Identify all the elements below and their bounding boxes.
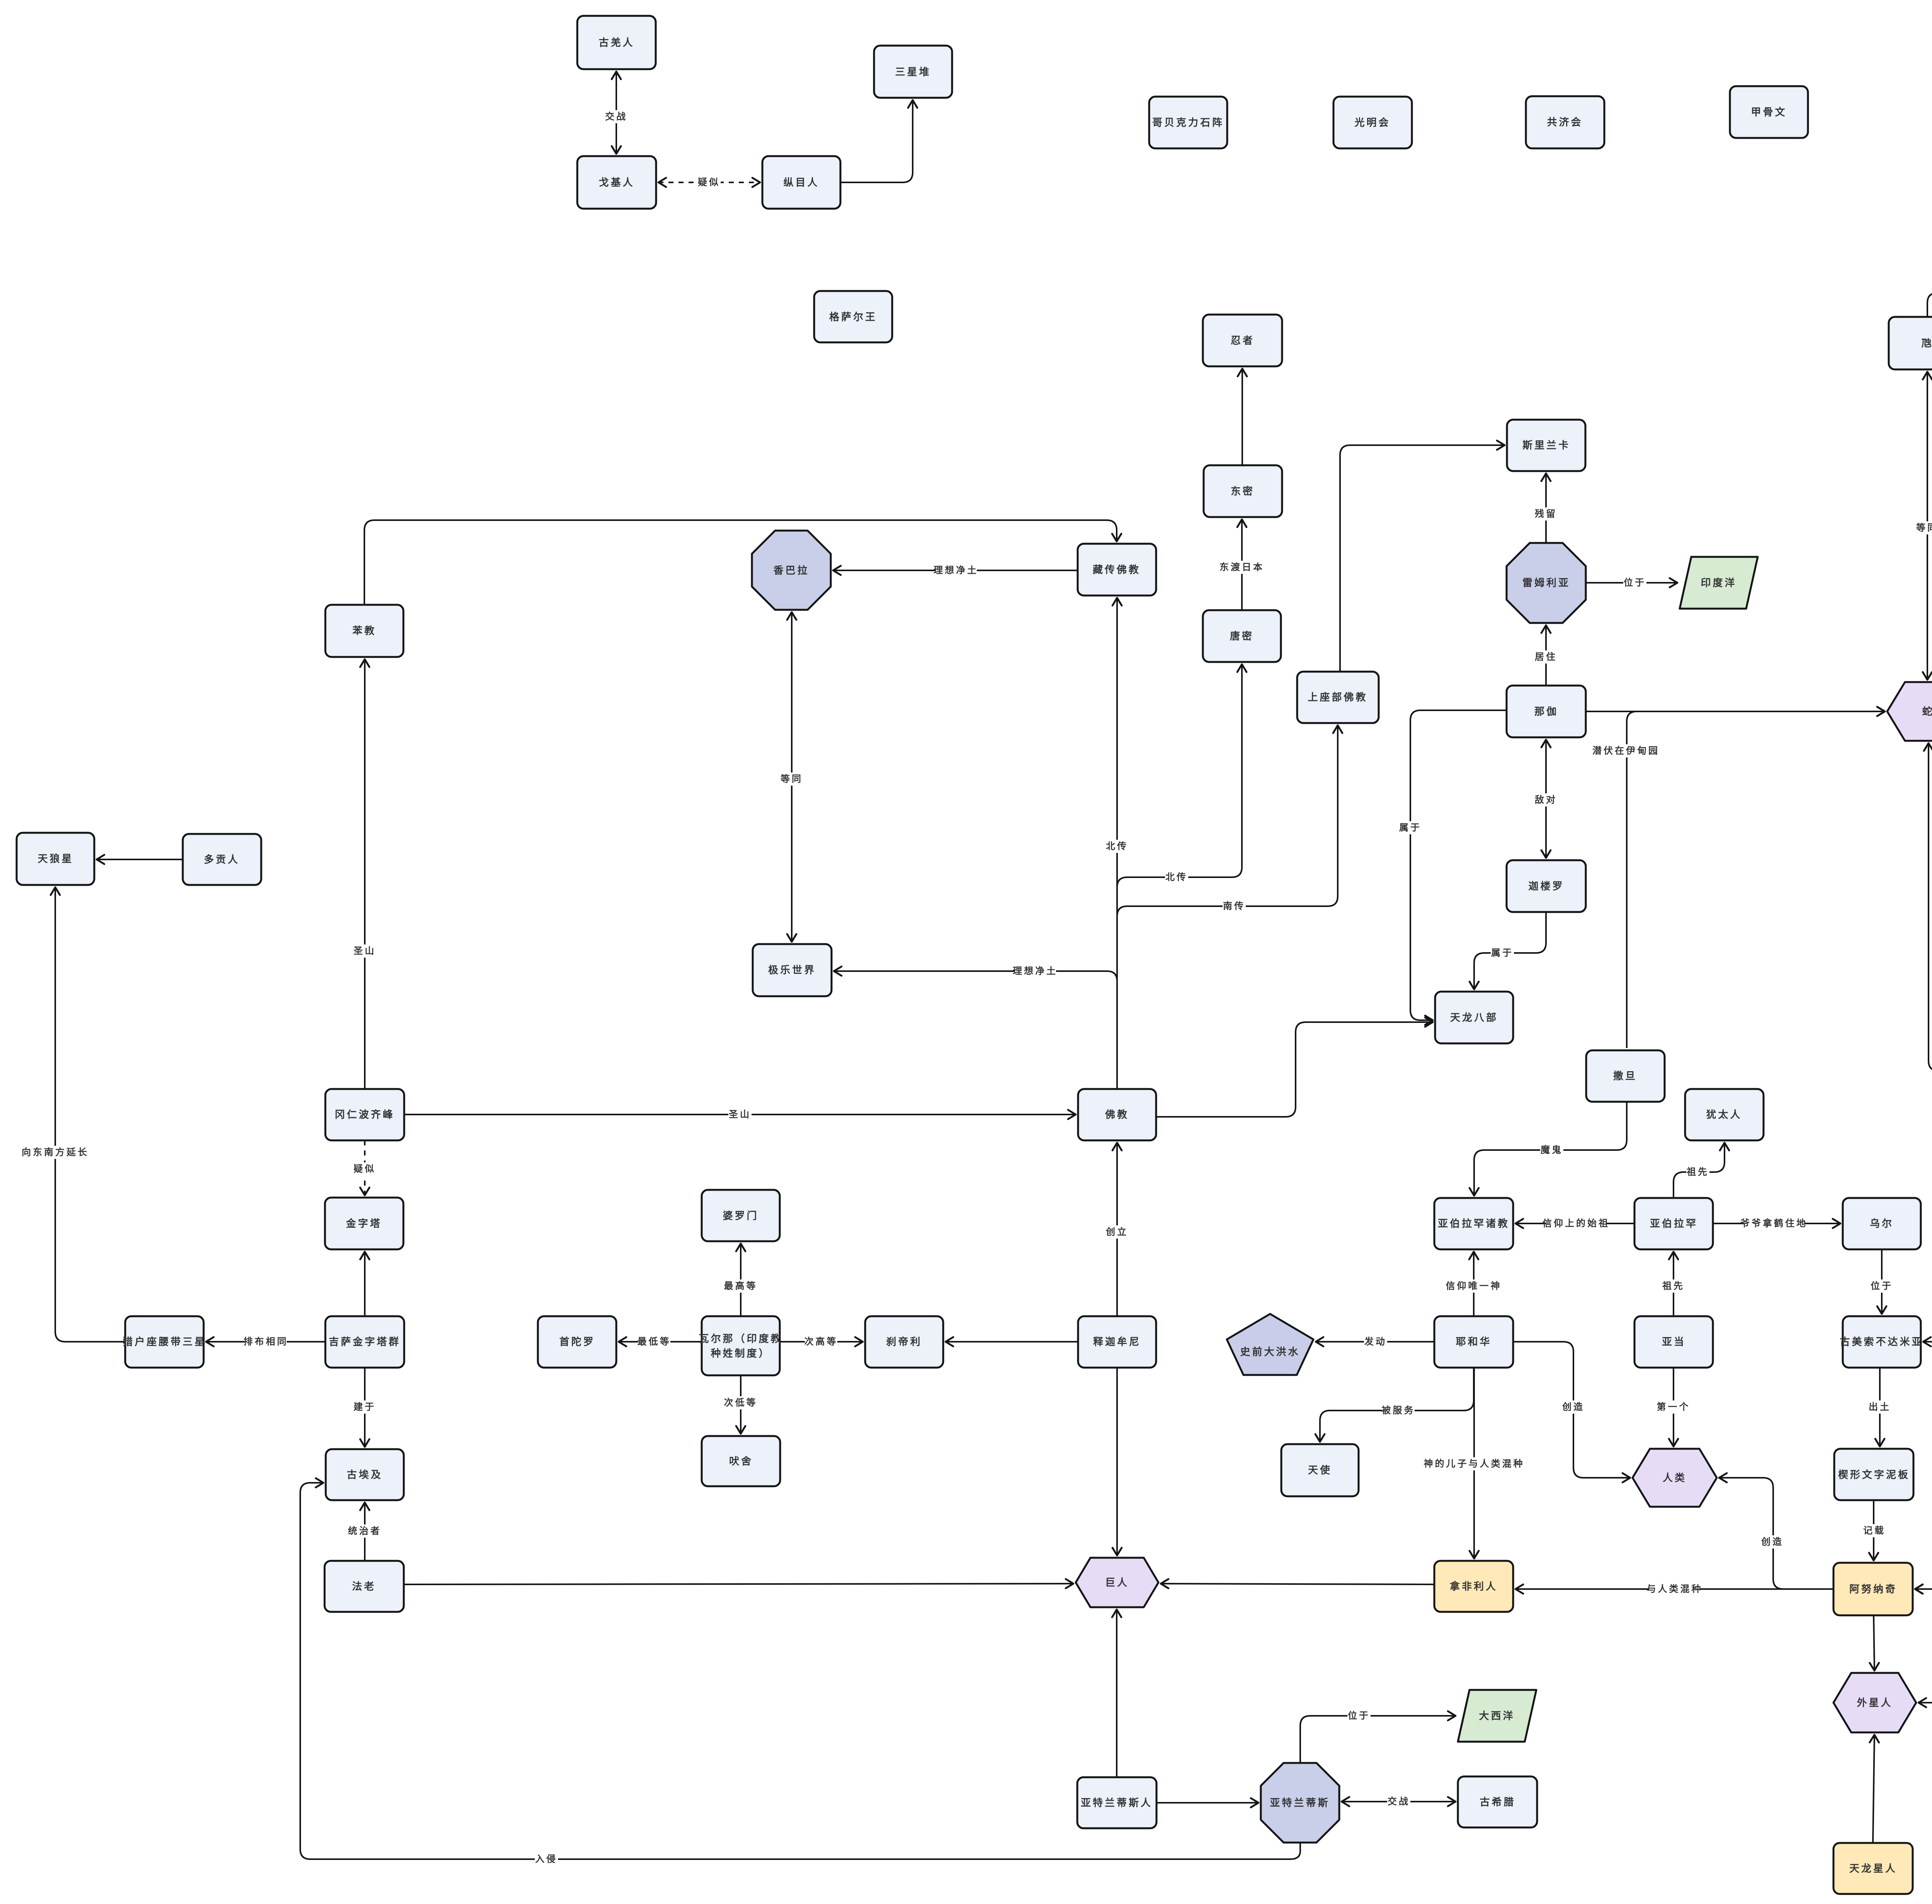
node 古美索不达米亚 (1840, 1316, 1923, 1368)
node 香巴拉 (752, 531, 831, 610)
node 格萨尔王 (814, 291, 892, 342)
svg-text:亚伯拉罕: 亚伯拉罕 (1650, 1218, 1698, 1229)
wire 古美索不达米亚-楔形文字泥板 出土 (1868, 1368, 1891, 1446)
wire 阿努纳奇-人类 创造 (1719, 1478, 1833, 1589)
wire 冈仁波齐峰-佛教 圣山 (404, 1108, 1076, 1121)
svg-text:多贡人: 多贡人 (204, 854, 240, 865)
svg-text:信仰唯一神: 信仰唯一神 (1446, 1281, 1502, 1291)
wire 法老-古埃及 统治者 (348, 1502, 382, 1561)
svg-text:向东南方延长: 向东南方延长 (22, 1147, 89, 1158)
node 释迦牟尼 (1078, 1316, 1156, 1368)
node 天龙八部 (1435, 992, 1513, 1043)
svg-text:东密: 东密 (1231, 485, 1255, 497)
svg-text:三星堆: 三星堆 (895, 66, 931, 78)
wire 释迦牟尼-刹帝利 (946, 1341, 1078, 1342)
node 外星人 (1833, 1673, 1916, 1732)
wire 佛教-藏传佛教 北传 (1105, 598, 1129, 1089)
wire 亚特兰蒂斯人-亚特兰蒂斯 (1156, 1802, 1259, 1804)
wire 瓦尔那-首陀罗 最低等 (619, 1335, 702, 1348)
svg-text:统治者: 统治者 (348, 1526, 382, 1536)
wire 唐密-东密 东渡日本 (1219, 519, 1264, 610)
svg-text:魔鬼: 魔鬼 (1541, 1145, 1563, 1155)
svg-text:法老: 法老 (352, 1581, 376, 1592)
wire 那伽-天龙八部 属于 (1399, 710, 1507, 1020)
wire 宁松-阿努纳奇 属于 (1915, 1368, 1932, 1596)
svg-text:阿努纳奇: 阿努纳奇 (1849, 1583, 1897, 1595)
node 吠舍 (702, 1436, 780, 1486)
wire 阿努纳奇-外星人 (1874, 1615, 1874, 1671)
node 唐密 (1203, 610, 1281, 662)
node 巨人 (1076, 1558, 1158, 1607)
svg-text:交战: 交战 (1388, 1796, 1410, 1807)
svg-text:神的儿子与人类混种: 神的儿子与人类混种 (1424, 1458, 1525, 1469)
wire 那伽-蛇 (1586, 711, 1885, 712)
node 东密 (1204, 465, 1282, 517)
wire 法老-巨人 (404, 1584, 1073, 1584)
svg-text:哥贝克力石阵: 哥贝克力石阵 (1152, 117, 1224, 128)
wire 亚当-亚伯拉罕 祖先 (1662, 1252, 1685, 1316)
svg-text:入侵: 入侵 (535, 1854, 558, 1865)
wire 吉萨金字塔群-猎户座腰带三星 排布相同 (206, 1335, 325, 1348)
svg-text:次低等: 次低等 (724, 1397, 758, 1408)
svg-text:大西洋: 大西洋 (1479, 1710, 1515, 1722)
node 雷姆利亚 (1507, 543, 1586, 623)
wire 亚当-人类 第一个 (1657, 1368, 1690, 1446)
node 古羌人 (577, 16, 656, 69)
svg-text:最高等: 最高等 (724, 1281, 758, 1291)
wire 亚伯拉罕-乌尔 爷爷拿鹤住地 (1713, 1217, 1840, 1230)
wire 天龙星人-外星人 (1873, 1735, 1874, 1843)
svg-text:出土: 出土 (1869, 1402, 1891, 1412)
svg-text:佛教: 佛教 (1105, 1109, 1129, 1120)
svg-text:属于: 属于 (1399, 823, 1422, 833)
node 拿非利人 (1434, 1561, 1513, 1612)
svg-text:上座部佛教: 上座部佛教 (1308, 691, 1367, 703)
wire igigi-阿努纳奇 服务 (1915, 1589, 1932, 1643)
svg-text:被服务: 被服务 (1382, 1405, 1415, 1416)
svg-text:建于: 建于 (354, 1402, 376, 1412)
wire 蜥蜴人-外星人 一种可能 (1918, 1071, 1932, 1703)
node 史前大洪水 (1227, 1314, 1313, 1375)
svg-text:北传: 北传 (1165, 872, 1188, 883)
wire 戈基人-纵目人 疑似 (658, 176, 760, 189)
svg-text:东渡日本: 东渡日本 (1219, 562, 1264, 573)
svg-text:天龙星人: 天龙星人 (1849, 1863, 1897, 1874)
svg-text:唐密: 唐密 (1230, 630, 1254, 642)
svg-text:第一个: 第一个 (1657, 1402, 1690, 1412)
svg-text:外星人: 外星人 (1857, 1697, 1893, 1708)
svg-text:耶和华: 耶和华 (1456, 1336, 1492, 1348)
svg-text:楔形文字泥板: 楔形文字泥板 (1838, 1469, 1910, 1480)
wire 那伽-雷姆利亚 居住 (1534, 625, 1558, 686)
svg-text:疑似: 疑似 (354, 1164, 376, 1174)
svg-text:亚特兰蒂斯人: 亚特兰蒂斯人 (1081, 1797, 1153, 1809)
svg-text:蛇: 蛇 (1922, 706, 1932, 717)
svg-text:亚当: 亚当 (1662, 1336, 1686, 1348)
svg-text:释迦牟尼: 释迦牟尼 (1093, 1336, 1141, 1348)
svg-text:虺: 虺 (1921, 337, 1932, 349)
svg-text:发动: 发动 (1364, 1336, 1387, 1347)
node 上座部佛教 (1297, 672, 1379, 723)
svg-text:吉萨金字塔群: 吉萨金字塔群 (329, 1336, 401, 1348)
svg-text:吠舍: 吠舍 (729, 1455, 753, 1467)
node 佛教 (1078, 1089, 1156, 1140)
wire 亚特兰蒂斯-大西洋 位于 (1300, 1709, 1456, 1763)
node 金字塔 (325, 1198, 403, 1249)
wire 蛇-虺 等同 (1916, 372, 1932, 680)
node 犹太人 (1685, 1089, 1764, 1140)
svg-text:天龙八部: 天龙八部 (1450, 1012, 1498, 1023)
node 甲骨文 (1730, 86, 1808, 138)
node 哥贝克力石阵 (1149, 97, 1227, 148)
svg-text:居住: 居住 (1535, 652, 1557, 662)
node 亚伯拉罕诸教 (1434, 1198, 1513, 1249)
node 瓦尔那 (699, 1316, 782, 1375)
wire 多贡人-天狼星 (97, 859, 183, 860)
wire 耶和华-史前大洪水 发动 (1316, 1335, 1434, 1348)
svg-text:瓦尔那（印度教: 瓦尔那（印度教 (699, 1333, 782, 1344)
svg-text:与人类混种: 与人类混种 (1647, 1584, 1703, 1594)
node 亚当 (1634, 1316, 1713, 1368)
svg-text:位于: 位于 (1871, 1281, 1893, 1291)
wire 耶和华-拿非利人 神的儿子与人类混种 (1424, 1368, 1525, 1559)
svg-text:格萨尔王: 格萨尔王 (829, 311, 877, 323)
svg-text:刹帝利: 刹帝利 (886, 1336, 922, 1348)
wire 蜥蜴人-蛇 (1929, 743, 1932, 1071)
node 共济会 (1526, 96, 1604, 148)
svg-text:藏传佛教: 藏传佛教 (1093, 564, 1141, 575)
node 婆罗门 (702, 1190, 780, 1241)
svg-text:拿非利人: 拿非利人 (1449, 1581, 1498, 1592)
node 阿努纳奇 (1833, 1563, 1913, 1615)
svg-text:古美索不达米亚: 古美索不达米亚 (1840, 1336, 1923, 1348)
wire 撒旦-亚伯拉罕诸教 魔鬼 (1474, 1102, 1627, 1196)
node 忍者 (1203, 315, 1282, 366)
svg-text:苯教: 苯教 (352, 625, 376, 636)
wire 撒旦-蛇 潜伏在伊甸园 (1592, 711, 1885, 1048)
svg-text:冈仁波齐峰: 冈仁波齐峰 (335, 1109, 395, 1120)
node 纵目人 (762, 156, 840, 209)
node 人类 (1633, 1449, 1717, 1507)
wire 安努安-阿努纳奇 父亲/祖先 (1915, 1376, 1932, 1589)
svg-text:北传: 北传 (1106, 841, 1128, 852)
svg-text:婆罗门: 婆罗门 (723, 1210, 759, 1222)
svg-text:祖先: 祖先 (1687, 1167, 1709, 1177)
wire 亚伯拉罕-犹太人 祖先 (1673, 1143, 1725, 1198)
wire 耶和华-亚伯拉罕诸教 信仰唯一神 (1446, 1252, 1502, 1316)
node 虺 (1889, 317, 1932, 369)
node 大西洋 (1458, 1690, 1536, 1742)
svg-text:爷爷拿鹤住地: 爷爷拿鹤住地 (1740, 1218, 1808, 1229)
node 猎户座腰带三星 (122, 1316, 206, 1368)
svg-text:天狼星: 天狼星 (37, 853, 73, 864)
svg-text:雷姆利亚: 雷姆利亚 (1522, 577, 1570, 589)
svg-text:创造: 创造 (1761, 1537, 1784, 1547)
node 那伽 (1507, 686, 1586, 737)
svg-text:圣山: 圣山 (354, 946, 376, 956)
node 苯教 (325, 605, 403, 657)
svg-text:理想净土: 理想净土 (1013, 966, 1058, 977)
wire 亚伯拉罕-亚伯拉罕诸教 信仰上的始祖 (1515, 1217, 1634, 1230)
node 斯里兰卡 (1507, 420, 1585, 471)
svg-text:等同: 等同 (781, 774, 803, 784)
node 楔形文字泥板 (1834, 1449, 1913, 1500)
svg-text:忍者: 忍者 (1231, 335, 1255, 346)
svg-text:斯里兰卡: 斯里兰卡 (1522, 439, 1570, 451)
wire 楔形文字泥板-阿努纳奇 记载 (1863, 1500, 1886, 1560)
node 首陀罗 (538, 1316, 616, 1368)
wire 纵目人-三星堆 (840, 100, 913, 182)
wire 冈仁波齐峰-苯教 圣山 (353, 659, 376, 1089)
wire 阿努纳奇-拿非利人 与人类混种 (1515, 1582, 1833, 1596)
svg-text:犹太人: 犹太人 (1706, 1109, 1742, 1120)
wire 虺-蛟 修炼五百年 (1927, 286, 1932, 317)
wire 佛教-唐密 北传 (1117, 664, 1242, 1089)
svg-text:交战: 交战 (605, 111, 628, 122)
node 藏传佛教 (1078, 544, 1156, 596)
svg-text:天使: 天使 (1308, 1464, 1332, 1476)
svg-text:首陀罗: 首陀罗 (559, 1336, 595, 1348)
svg-text:排布相同: 排布相同 (243, 1336, 288, 1347)
svg-text:种姓制度）: 种姓制度） (711, 1348, 770, 1359)
svg-text:理想净土: 理想净土 (934, 565, 978, 576)
svg-text:撒旦: 撒旦 (1613, 1070, 1637, 1082)
svg-text:戈基人: 戈基人 (599, 177, 634, 188)
svg-text:创立: 创立 (1105, 1227, 1128, 1237)
wire 苯教-藏传佛教 (364, 520, 1117, 605)
node 冈仁波齐峰 (325, 1089, 404, 1140)
svg-text:祖先: 祖先 (1662, 1281, 1685, 1291)
node 乌尔 (1843, 1198, 1921, 1249)
svg-text:迦楼罗: 迦楼罗 (1528, 880, 1564, 892)
wire 猎户座腰带三星-天狼星 向东南方延长 (22, 887, 125, 1342)
svg-text:位于: 位于 (1348, 1710, 1370, 1721)
node 迦楼罗 (1507, 860, 1586, 912)
node 亚伯拉罕 (1634, 1198, 1713, 1249)
svg-text:印度洋: 印度洋 (1701, 577, 1736, 589)
svg-text:猎户座腰带三星: 猎户座腰带三星 (122, 1336, 206, 1348)
wire 佛教-极乐世界 理想净土 (834, 965, 1117, 1089)
svg-text:位于: 位于 (1624, 577, 1646, 588)
wire 佛教-上座部佛教 南传 (1117, 725, 1338, 1089)
svg-text:金字塔: 金字塔 (345, 1218, 382, 1229)
wire 吉萨金字塔群-古埃及 建于 (353, 1368, 376, 1447)
wire 香巴拉-极乐世界 等同 (780, 612, 803, 942)
wire 乌尔-古美索不达米亚 位于 (1870, 1249, 1893, 1314)
wire 亚特兰蒂斯人-巨人 (1116, 1610, 1117, 1777)
svg-text:残留: 残留 (1535, 509, 1557, 519)
wire 上座部佛教-斯里兰卡 (1340, 445, 1505, 672)
svg-text:光明会: 光明会 (1354, 117, 1390, 128)
node 亚特兰蒂斯 (1261, 1763, 1339, 1843)
svg-text:南传: 南传 (1223, 901, 1245, 912)
wire 瓦尔那-吠舍 次低等 (724, 1375, 758, 1434)
svg-text:古希腊: 古希腊 (1480, 1796, 1515, 1808)
svg-text:创造: 创造 (1562, 1402, 1585, 1412)
wire 东密-忍者 (1242, 369, 1243, 465)
svg-text:次高等: 次高等 (804, 1336, 838, 1347)
node 天龙星人 (1833, 1843, 1913, 1894)
wire 古羌人-戈基人 交战 (605, 71, 628, 154)
node 古埃及 (326, 1449, 404, 1500)
node 亚特兰蒂斯人 (1077, 1777, 1156, 1828)
wire 雷姆利亚-印度洋 位于 (1586, 576, 1677, 589)
wire 乌鲁克-古美索不达米亚 位于 (1923, 1190, 1932, 1342)
wire 迦楼罗-天龙八部 属于 (1474, 912, 1546, 989)
wire 耶和华-人类 创造 (1513, 1342, 1630, 1478)
node 撒旦 (1586, 1050, 1665, 1102)
wire 释迦牟尼-巨人 (1116, 1368, 1118, 1555)
node 戈基人 (577, 156, 656, 209)
svg-text:古羌人: 古羌人 (599, 37, 634, 48)
svg-text:亚伯拉罕诸教: 亚伯拉罕诸教 (1438, 1218, 1510, 1229)
svg-text:最低等: 最低等 (638, 1336, 671, 1347)
wire 吉萨金字塔群-金字塔 (364, 1252, 366, 1316)
svg-text:乌尔: 乌尔 (1870, 1218, 1894, 1229)
svg-text:史前大洪水: 史前大洪水 (1240, 1346, 1300, 1358)
wire 瓦尔那-婆罗门 最高等 (724, 1244, 758, 1316)
svg-text:圣山: 圣山 (729, 1109, 751, 1120)
svg-text:记载: 记载 (1863, 1526, 1886, 1536)
svg-text:纵目人: 纵目人 (783, 177, 819, 188)
node 极乐世界 (753, 944, 832, 996)
svg-text:巨人: 巨人 (1105, 1577, 1129, 1588)
wire 冈仁波齐峰-金字塔 疑似 (353, 1140, 376, 1195)
svg-text:亚特兰蒂斯: 亚特兰蒂斯 (1270, 1797, 1330, 1809)
node 多贡人 (183, 834, 261, 885)
node 耶和华 (1434, 1316, 1513, 1368)
wire 耶和华-天使 被服务 (1320, 1368, 1474, 1442)
svg-text:等同: 等同 (1916, 522, 1932, 533)
svg-text:敌对: 敌对 (1535, 795, 1557, 805)
svg-text:甲骨文: 甲骨文 (1751, 106, 1787, 118)
svg-text:潜伏在伊甸园: 潜伏在伊甸园 (1592, 745, 1660, 756)
wire 亚特兰蒂斯-古埃及 入侵 (300, 1483, 1300, 1866)
node 吉萨金字塔群 (325, 1316, 404, 1368)
svg-text:属于: 属于 (1491, 948, 1514, 958)
wire 瓦尔那-刹帝利 次高等 (780, 1335, 863, 1348)
svg-text:古埃及: 古埃及 (347, 1469, 383, 1480)
wire 雷姆利亚-斯里兰卡 残留 (1534, 473, 1558, 543)
node 蛇 (1887, 682, 1932, 741)
node 古希腊 (1458, 1776, 1537, 1827)
wire 藏传佛教-香巴拉 理想净土 (833, 564, 1078, 577)
node 天狼星 (17, 833, 94, 885)
wire 佛教-天龙八部 (1156, 1022, 1433, 1117)
node 三星堆 (874, 46, 952, 98)
svg-text:极乐世界: 极乐世界 (768, 964, 816, 976)
svg-text:香巴拉: 香巴拉 (773, 565, 809, 576)
wire 拿非利人-巨人 (1161, 1584, 1434, 1584)
node 印度洋 (1680, 557, 1758, 609)
svg-text:疑似: 疑似 (698, 177, 720, 188)
node 刹帝利 (865, 1316, 943, 1368)
svg-text:那伽: 那伽 (1534, 706, 1558, 717)
svg-text:共济会: 共济会 (1547, 116, 1583, 128)
wire 亚特兰蒂斯-古希腊 交战 (1342, 1795, 1456, 1808)
node 天使 (1281, 1444, 1359, 1496)
wire 释迦牟尼-佛教 创立 (1105, 1143, 1129, 1316)
node 法老 (325, 1561, 404, 1612)
node 光明会 (1333, 97, 1412, 148)
svg-text:人类: 人类 (1663, 1472, 1687, 1484)
svg-text:信仰上的始祖: 信仰上的始祖 (1543, 1218, 1610, 1229)
wire 那伽-迦楼罗 敌对 (1534, 740, 1558, 858)
